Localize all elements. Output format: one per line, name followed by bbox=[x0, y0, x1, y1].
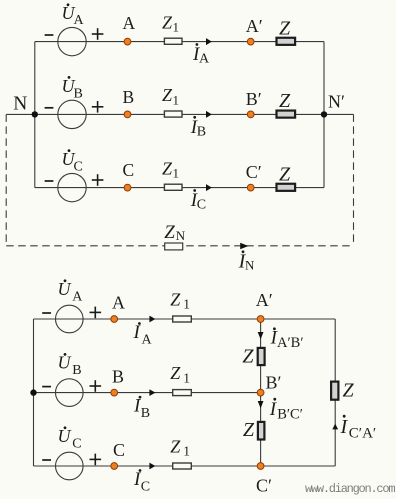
svg-text:U: U bbox=[58, 279, 72, 299]
svg-text:B: B bbox=[72, 363, 81, 378]
svg-text:A′: A′ bbox=[256, 290, 273, 310]
voltage source U_C (bottom) bbox=[42, 426, 101, 480]
node C' (bottom) bbox=[256, 463, 272, 496]
svg-text:Z: Z bbox=[279, 17, 291, 39]
current arrow I_A'B' bbox=[258, 327, 304, 351]
svg-text:U: U bbox=[58, 426, 72, 446]
node A (bottom) bbox=[111, 292, 125, 322]
wire: bottom phase C line bbox=[34, 465, 336, 467]
wire: neutral dashed bottom segment bbox=[6, 245, 353, 247]
delta load resistor Z (C'A') bbox=[331, 380, 354, 402]
svg-text:C: C bbox=[197, 198, 206, 213]
voltage source U_B (bottom) bbox=[42, 353, 101, 407]
node C bbox=[123, 160, 135, 191]
delta load resistor Z (B'C') bbox=[243, 419, 265, 441]
current arrow I_N (neutral) bbox=[238, 243, 255, 273]
svg-text:Z: Z bbox=[242, 346, 254, 368]
node B (bottom) bbox=[111, 367, 124, 397]
resistor Z1 (top phase A) bbox=[162, 12, 182, 44]
node B bbox=[123, 87, 135, 118]
wire: top circuit right bus bbox=[323, 42, 325, 188]
svg-text:C: C bbox=[113, 440, 125, 460]
svg-text:A: A bbox=[142, 332, 153, 347]
svg-text:1: 1 bbox=[173, 166, 180, 181]
node N' bbox=[321, 91, 345, 117]
node A bbox=[123, 13, 136, 45]
svg-text:Z: Z bbox=[170, 363, 181, 383]
svg-text:C: C bbox=[123, 160, 135, 180]
svg-text:N: N bbox=[176, 228, 186, 243]
current arrow I_C (bottom) bbox=[133, 463, 155, 495]
node B' (bottom) bbox=[257, 373, 281, 397]
svg-text:1: 1 bbox=[183, 444, 190, 459]
wire: top phase A line bbox=[35, 41, 324, 43]
junction on left bus at phase B bbox=[30, 389, 36, 395]
resistor Z1 (bottom phase A) bbox=[170, 290, 191, 323]
svg-text:U: U bbox=[58, 353, 72, 373]
svg-text:A: A bbox=[123, 13, 136, 33]
node A' (bottom) bbox=[256, 290, 273, 322]
svg-text:Z: Z bbox=[243, 419, 255, 441]
svg-text:I: I bbox=[340, 416, 349, 438]
svg-text:1: 1 bbox=[173, 92, 180, 107]
current arrow I_B'C' bbox=[258, 398, 303, 423]
load resistor Z (top phase C) bbox=[277, 163, 296, 191]
svg-text:1: 1 bbox=[183, 297, 190, 312]
voltage source U_A (bottom) bbox=[42, 279, 101, 333]
svg-text:A: A bbox=[199, 52, 210, 67]
resistor Z1 (top phase B) bbox=[162, 85, 182, 117]
svg-text:C: C bbox=[141, 479, 150, 494]
svg-text:Z: Z bbox=[162, 158, 173, 178]
current arrow I_C'A' bbox=[332, 415, 376, 441]
svg-text:B′: B′ bbox=[246, 89, 262, 109]
node N bbox=[13, 94, 38, 118]
resistor Z1 (bottom phase C) bbox=[170, 437, 191, 470]
svg-text:C′: C′ bbox=[256, 476, 272, 496]
svg-text:N′: N′ bbox=[328, 91, 345, 111]
voltage source U_B (top) bbox=[45, 76, 104, 129]
current arrow I_B (top) bbox=[190, 111, 212, 139]
svg-text:A: A bbox=[74, 13, 85, 28]
svg-text:A′B′: A′B′ bbox=[277, 335, 304, 351]
wire: N stub bbox=[6, 113, 35, 115]
svg-text:1: 1 bbox=[183, 370, 190, 385]
svg-text:C: C bbox=[72, 437, 81, 452]
wire: bottom circuit left bus bbox=[33, 319, 35, 466]
svg-text:Z: Z bbox=[343, 380, 355, 402]
svg-text:A′: A′ bbox=[246, 16, 263, 36]
svg-text:Z: Z bbox=[170, 290, 181, 310]
svg-text:Z: Z bbox=[279, 90, 291, 112]
wire: bottom phase A line bbox=[34, 318, 336, 320]
current arrow I_A (top) bbox=[192, 38, 212, 67]
svg-text:Z: Z bbox=[162, 12, 173, 32]
svg-text:B: B bbox=[123, 87, 135, 107]
svg-text:B: B bbox=[74, 86, 83, 101]
svg-text:C′A′: C′A′ bbox=[349, 425, 376, 441]
load resistor Z (top phase B) bbox=[277, 90, 296, 118]
node C' bbox=[246, 162, 262, 191]
current arrow I_C (top) bbox=[190, 184, 212, 213]
svg-text:C: C bbox=[74, 160, 83, 175]
wire: N' stub bbox=[324, 113, 354, 115]
wire: neutral dashed left segment bbox=[5, 114, 7, 245]
svg-text:www.diangon.com: www.diangon.com bbox=[305, 482, 395, 496]
load resistor Z (top phase A) bbox=[277, 17, 296, 45]
node C (bottom) bbox=[111, 440, 125, 469]
svg-text:N: N bbox=[245, 258, 255, 273]
svg-text:A: A bbox=[112, 292, 125, 312]
wire: delta mid bus A'-B'-C' bbox=[260, 319, 262, 466]
svg-text:B′C′: B′C′ bbox=[277, 407, 303, 423]
svg-text:N: N bbox=[13, 94, 27, 115]
node B' bbox=[246, 89, 262, 118]
wire: top phase C line bbox=[35, 187, 324, 189]
svg-text:B′: B′ bbox=[266, 373, 282, 393]
svg-text:Z: Z bbox=[170, 437, 181, 457]
voltage source U_A (top) bbox=[45, 3, 104, 56]
wire: bottom circuit right bus bbox=[334, 319, 336, 466]
svg-text:B: B bbox=[141, 406, 150, 421]
svg-text:I: I bbox=[133, 322, 142, 343]
svg-text:A: A bbox=[72, 290, 83, 305]
svg-text:C′: C′ bbox=[246, 162, 262, 182]
svg-text:1: 1 bbox=[173, 20, 180, 35]
wire: top circuit left bus bbox=[34, 42, 36, 188]
current arrow I_B (bottom) bbox=[133, 389, 155, 421]
delta load resistor Z (A'B') bbox=[242, 346, 264, 368]
svg-text:Z: Z bbox=[162, 85, 173, 105]
svg-text:Z: Z bbox=[279, 163, 291, 185]
svg-text:B: B bbox=[112, 367, 124, 387]
current arrow I_A (bottom) bbox=[133, 316, 156, 348]
svg-text:Z: Z bbox=[164, 222, 175, 243]
wire: top phase B line bbox=[35, 113, 324, 115]
resistor Z1 (top phase C) bbox=[162, 158, 182, 190]
voltage source U_C (top) bbox=[45, 149, 104, 202]
neutral impedance Z_N bbox=[164, 222, 186, 250]
wire: bottom phase B line bbox=[34, 392, 261, 394]
svg-text:B: B bbox=[197, 124, 206, 139]
resistor Z1 (bottom phase B) bbox=[170, 363, 191, 396]
wire: neutral dashed right segment bbox=[353, 114, 355, 245]
node A' bbox=[246, 16, 263, 45]
